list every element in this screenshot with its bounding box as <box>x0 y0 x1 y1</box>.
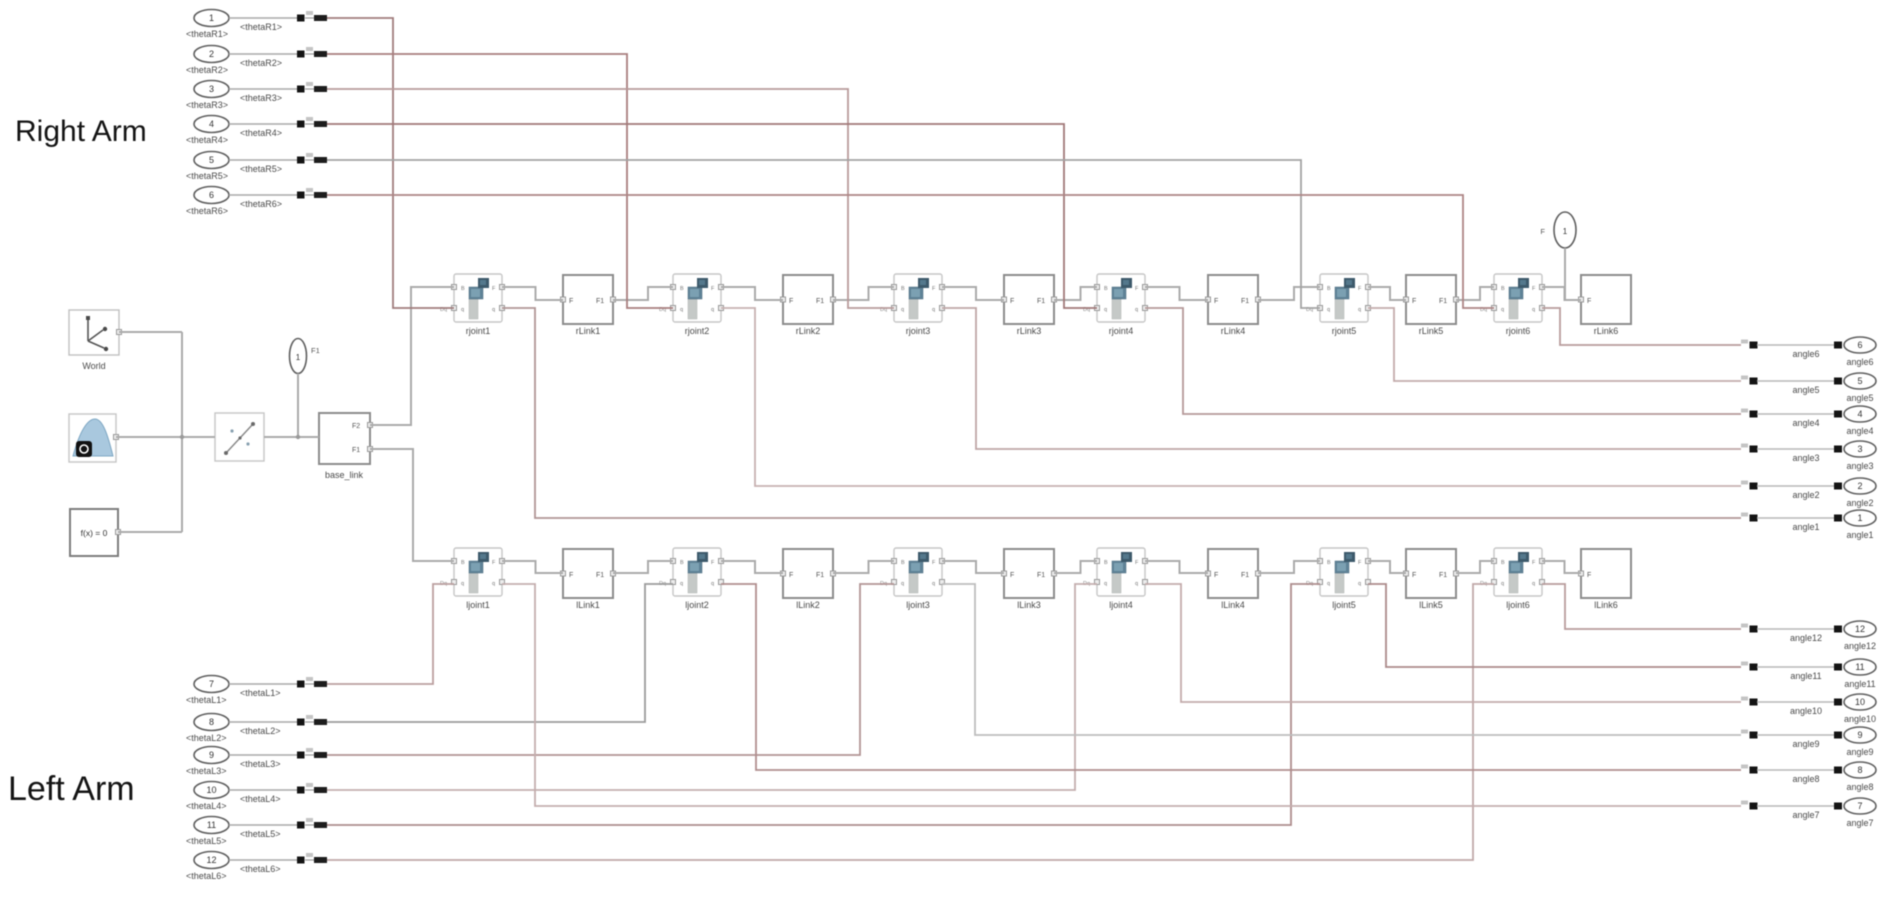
svg-text:6: 6 <box>209 190 214 200</box>
svg-text:rLink6: rLink6 <box>1594 326 1619 336</box>
svg-text:q: q <box>901 307 904 313</box>
svg-text:2: 2 <box>1857 481 1862 491</box>
svg-text:B: B <box>461 560 465 566</box>
svg-text:F1: F1 <box>311 346 320 355</box>
svg-text:angle10: angle10 <box>1790 706 1822 716</box>
svg-text:angle9: angle9 <box>1846 747 1873 757</box>
svg-text:12: 12 <box>206 855 216 865</box>
svg-text:q: q <box>932 581 935 587</box>
svg-text:angle3: angle3 <box>1846 461 1873 471</box>
svg-text:B: B <box>1327 560 1331 566</box>
svg-text:rjoint1: rjoint1 <box>466 326 491 336</box>
svg-text:lLink1: lLink1 <box>576 600 600 610</box>
svg-text:rjoint5: rjoint5 <box>1332 326 1357 336</box>
svg-text:angle6: angle6 <box>1846 357 1873 367</box>
svg-text:q: q <box>1501 307 1504 313</box>
svg-text:angle11: angle11 <box>1790 671 1821 681</box>
svg-text:ljoint5: ljoint5 <box>1332 600 1356 610</box>
svg-text:F1: F1 <box>1037 572 1045 579</box>
svg-text:<thetaR2>: <thetaR2> <box>186 65 228 75</box>
svg-text:F1: F1 <box>816 572 824 579</box>
svg-text:B: B <box>680 560 684 566</box>
svg-text:7: 7 <box>209 679 214 689</box>
svg-text:6: 6 <box>1857 340 1862 350</box>
svg-text:ljoint4: ljoint4 <box>1109 600 1133 610</box>
svg-text:<thetaL2>: <thetaL2> <box>186 733 227 743</box>
svg-text:angle12: angle12 <box>1790 633 1822 643</box>
svg-text:rjoint3: rjoint3 <box>906 326 931 336</box>
svg-text:9: 9 <box>209 750 214 760</box>
svg-text:<thetaL1>: <thetaL1> <box>186 695 227 705</box>
svg-text:<thetaL4>: <thetaL4> <box>240 794 281 804</box>
svg-text:<thetaR3>: <thetaR3> <box>240 93 282 103</box>
svg-text:Left Arm: Left Arm <box>8 770 135 808</box>
svg-text:B: B <box>1104 286 1108 292</box>
svg-text:angle2: angle2 <box>1792 490 1819 500</box>
svg-text:<thetaL6>: <thetaL6> <box>240 864 281 874</box>
svg-text:angle9: angle9 <box>1792 739 1819 749</box>
svg-text:rLink4: rLink4 <box>1221 326 1246 336</box>
svg-text:angle11: angle11 <box>1844 679 1875 689</box>
svg-text:q: q <box>1358 307 1361 313</box>
svg-text:B: B <box>1327 286 1331 292</box>
svg-text:<thetaL6>: <thetaL6> <box>186 871 227 881</box>
svg-text:7: 7 <box>1857 801 1862 811</box>
svg-text:q: q <box>492 307 495 313</box>
svg-text:F: F <box>1412 298 1416 305</box>
svg-text:F1: F1 <box>1241 298 1249 305</box>
svg-text:angle5: angle5 <box>1792 385 1819 395</box>
svg-text:F: F <box>1587 298 1591 305</box>
svg-text:1: 1 <box>296 353 301 362</box>
svg-text:rLink3: rLink3 <box>1017 326 1042 336</box>
svg-text:<thetaR4>: <thetaR4> <box>186 135 228 145</box>
svg-text:<thetaL5>: <thetaL5> <box>240 829 281 839</box>
svg-text:F2: F2 <box>352 423 360 430</box>
svg-text:8: 8 <box>1857 765 1862 775</box>
svg-text:<thetaR6>: <thetaR6> <box>186 206 228 216</box>
svg-text:B: B <box>1501 286 1505 292</box>
svg-text:q: q <box>932 307 935 313</box>
svg-text:angle1: angle1 <box>1792 522 1819 532</box>
svg-text:<thetaL4>: <thetaL4> <box>186 801 227 811</box>
svg-text:angle6: angle6 <box>1792 349 1819 359</box>
svg-text:q: q <box>1104 581 1107 587</box>
svg-text:F: F <box>1540 227 1545 236</box>
svg-text:angle5: angle5 <box>1846 393 1873 403</box>
svg-text:q: q <box>680 307 683 313</box>
svg-text:F1: F1 <box>1241 572 1249 579</box>
svg-text:F: F <box>1010 572 1014 579</box>
svg-text:<thetaR4>: <thetaR4> <box>240 128 282 138</box>
svg-text:B: B <box>1104 560 1108 566</box>
svg-text:angle1: angle1 <box>1846 530 1873 540</box>
svg-text:q: q <box>1327 307 1330 313</box>
svg-text:angle4: angle4 <box>1846 426 1873 436</box>
svg-text:F: F <box>1412 572 1416 579</box>
svg-text:q: q <box>461 581 464 587</box>
svg-text:B: B <box>901 286 905 292</box>
svg-text:q: q <box>492 581 495 587</box>
svg-text:Right Arm: Right Arm <box>15 115 147 148</box>
svg-text:<thetaL3>: <thetaL3> <box>186 766 227 776</box>
svg-text:F1: F1 <box>1037 298 1045 305</box>
svg-text:q: q <box>1532 307 1535 313</box>
svg-text:angle3: angle3 <box>1792 453 1819 463</box>
svg-text:q: q <box>1327 581 1330 587</box>
svg-text:F1: F1 <box>352 447 360 454</box>
svg-text:3: 3 <box>209 84 214 94</box>
svg-text:<thetaR5>: <thetaR5> <box>186 171 228 181</box>
svg-text:F1: F1 <box>816 298 824 305</box>
svg-text:1: 1 <box>209 13 214 23</box>
svg-text:angle7: angle7 <box>1792 810 1819 820</box>
svg-text:12: 12 <box>1855 624 1865 634</box>
svg-text:angle8: angle8 <box>1792 774 1819 784</box>
svg-text:F1: F1 <box>596 298 604 305</box>
svg-text:1: 1 <box>1857 513 1862 523</box>
svg-text:World: World <box>82 361 105 371</box>
svg-text:F: F <box>1214 572 1218 579</box>
svg-text:q: q <box>711 307 714 313</box>
svg-text:B: B <box>461 286 465 292</box>
svg-text:B: B <box>901 560 905 566</box>
svg-text:rjoint4: rjoint4 <box>1109 326 1134 336</box>
svg-text:ljoint6: ljoint6 <box>1506 600 1530 610</box>
svg-text:<thetaR1>: <thetaR1> <box>186 29 228 39</box>
svg-text:q: q <box>1501 581 1504 587</box>
svg-text:<thetaR3>: <thetaR3> <box>186 100 228 110</box>
svg-text:F: F <box>789 298 793 305</box>
svg-text:9: 9 <box>1857 730 1862 740</box>
svg-text:5: 5 <box>209 155 214 165</box>
svg-text:q: q <box>1104 307 1107 313</box>
svg-text:F1: F1 <box>1439 572 1447 579</box>
svg-text:q: q <box>901 581 904 587</box>
svg-text:q: q <box>1532 581 1535 587</box>
svg-text:rLink1: rLink1 <box>576 326 601 336</box>
svg-text:8: 8 <box>209 717 214 727</box>
svg-text:rLink2: rLink2 <box>796 326 821 336</box>
svg-text:<thetaR2>: <thetaR2> <box>240 58 282 68</box>
svg-text:B: B <box>1501 560 1505 566</box>
svg-text:1: 1 <box>1563 227 1568 236</box>
svg-text:F1: F1 <box>1439 298 1447 305</box>
svg-text:F: F <box>569 572 573 579</box>
svg-text:<thetaR5>: <thetaR5> <box>240 164 282 174</box>
svg-text:F: F <box>1214 298 1218 305</box>
svg-text:angle10: angle10 <box>1844 714 1876 724</box>
svg-text:ljoint2: ljoint2 <box>685 600 709 610</box>
svg-text:lLink2: lLink2 <box>796 600 820 610</box>
svg-text:q: q <box>1135 581 1138 587</box>
svg-text:lLink5: lLink5 <box>1419 600 1443 610</box>
svg-text:4: 4 <box>209 119 214 129</box>
svg-text:rjoint6: rjoint6 <box>1506 326 1531 336</box>
svg-text:rLink5: rLink5 <box>1419 326 1444 336</box>
svg-text:2: 2 <box>209 49 214 59</box>
svg-text:q: q <box>461 307 464 313</box>
svg-text:f(x) = 0: f(x) = 0 <box>81 528 108 538</box>
svg-text:F: F <box>1587 572 1591 579</box>
svg-text:angle4: angle4 <box>1792 418 1819 428</box>
svg-text:3: 3 <box>1857 444 1862 454</box>
svg-text:<thetaL1>: <thetaL1> <box>240 688 281 698</box>
svg-text:F: F <box>1010 298 1014 305</box>
svg-text:angle12: angle12 <box>1844 641 1876 651</box>
svg-text:q: q <box>1358 581 1361 587</box>
svg-text:q: q <box>680 581 683 587</box>
svg-text:q: q <box>1135 307 1138 313</box>
svg-text:lLink4: lLink4 <box>1221 600 1245 610</box>
svg-text:5: 5 <box>1857 376 1862 386</box>
svg-text:11: 11 <box>1855 662 1864 672</box>
svg-text:10: 10 <box>206 785 216 795</box>
svg-text:ljoint1: ljoint1 <box>466 600 490 610</box>
svg-text:lLink6: lLink6 <box>1594 600 1618 610</box>
svg-text:lLink3: lLink3 <box>1017 600 1041 610</box>
svg-text:<thetaL3>: <thetaL3> <box>240 759 281 769</box>
svg-text:4: 4 <box>1857 409 1862 419</box>
svg-text:q: q <box>711 581 714 587</box>
svg-text:base_link: base_link <box>325 470 364 480</box>
svg-text:rjoint2: rjoint2 <box>685 326 710 336</box>
svg-text:angle2: angle2 <box>1846 498 1873 508</box>
svg-text:10: 10 <box>1855 697 1865 707</box>
svg-text:11: 11 <box>207 820 216 830</box>
svg-text:B: B <box>680 286 684 292</box>
svg-text:F: F <box>569 298 573 305</box>
svg-text:angle8: angle8 <box>1846 782 1873 792</box>
svg-text:<thetaL5>: <thetaL5> <box>186 836 227 846</box>
svg-text:ljoint3: ljoint3 <box>906 600 930 610</box>
svg-text:<thetaR1>: <thetaR1> <box>240 22 282 32</box>
svg-text:F1: F1 <box>596 572 604 579</box>
svg-text:angle7: angle7 <box>1846 818 1873 828</box>
svg-text:<thetaL2>: <thetaL2> <box>240 726 281 736</box>
svg-text:<thetaR6>: <thetaR6> <box>240 199 282 209</box>
svg-text:F: F <box>789 572 793 579</box>
